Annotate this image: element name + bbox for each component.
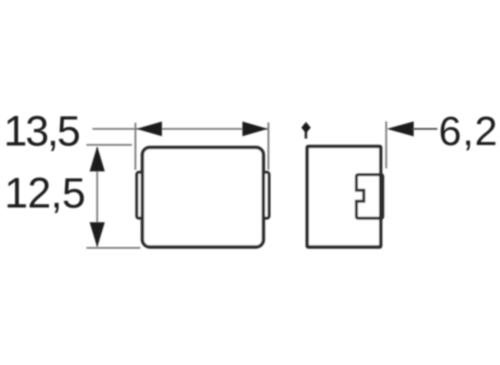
svg-text:6,2: 6,2 xyxy=(439,108,499,154)
svg-text:13,5: 13,5 xyxy=(4,109,79,156)
svg-text:12,5: 12,5 xyxy=(4,170,85,217)
